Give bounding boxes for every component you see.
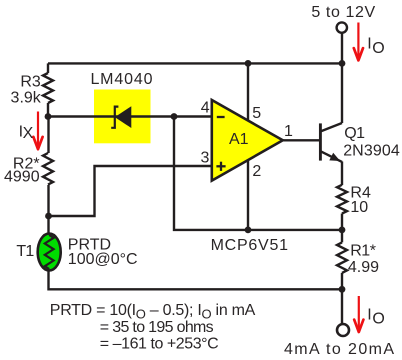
label 5 to 12V (311, 4, 375, 21)
op-amp A1 plus sign (216, 162, 225, 171)
svg-text:X: X (23, 125, 34, 142)
junction dot 8 (342,289.3) (339, 286, 346, 293)
svg-text:10: 10 (350, 199, 368, 216)
svg-text:100@0°C: 100@0°C (68, 251, 138, 268)
junction dot 6 (342,63.4) (339, 60, 346, 67)
current arrow IX (33, 112, 42, 150)
svg-text:= 35 to 195 ohms: = 35 to 195 ohms (100, 319, 214, 336)
svg-text:5 to 12V: 5 to 12V (311, 4, 375, 21)
svg-text:4: 4 (201, 100, 210, 117)
pin 5 (252, 105, 261, 122)
svg-text:T1: T1 (16, 243, 34, 260)
transistor Q1 (320, 123, 342, 162)
wire op-amp supply pins net (247, 63, 249, 230)
wire bottom terminal stub (341, 289, 343, 323)
junction dot 3 (174,116.5) (171, 113, 178, 120)
pin 3 (200, 149, 209, 166)
junction dot 1 (48,116.5) (45, 113, 52, 120)
svg-text:3.9k: 3.9k (11, 90, 42, 107)
svg-text:MCP6V51: MCP6V51 (211, 237, 289, 254)
junction dot 7 (342,229.9) (339, 227, 346, 234)
wire inverting input net (48, 115, 212, 117)
svg-text:Q1: Q1 (344, 125, 365, 142)
formula line 3 (100, 336, 218, 353)
current arrow IO bottom (354, 296, 363, 332)
label IO top (367, 36, 384, 57)
pin 4 (201, 100, 210, 117)
label PRTD 100@0C (68, 236, 138, 268)
label MCP6V51 (211, 237, 289, 254)
svg-text:O: O (372, 311, 384, 328)
terminal output 4-20mA (337, 324, 349, 336)
svg-text:4mA to 20mA: 4mA to 20mA (284, 341, 395, 358)
svg-text:1: 1 (284, 123, 293, 140)
svg-text:LM4040: LM4040 (90, 71, 153, 88)
pin 1 (284, 123, 293, 140)
junction dot 4 (248,63.4) (245, 60, 252, 67)
formula line 2 (100, 319, 214, 336)
label LM4040 (90, 71, 153, 88)
label A1 (229, 131, 249, 148)
label T1 (16, 243, 34, 260)
svg-text:2: 2 (252, 163, 261, 180)
resistor R4 (337, 185, 347, 230)
regulator U2 LM4040 body (94, 90, 151, 144)
op-amp A1 triangle (212, 100, 283, 181)
svg-text:5: 5 (252, 105, 261, 122)
svg-text:I: I (367, 306, 371, 323)
svg-text:= –161 to +253°C: = –161 to +253°C (100, 336, 218, 353)
current arrow IO top (354, 23, 363, 61)
junction dot 2 (48.5,216) (45, 213, 52, 220)
svg-text:4.99: 4.99 (348, 259, 379, 276)
wire noninverting input net (48, 166, 212, 216)
wire top terminal stub (341, 33, 343, 63)
svg-text:3: 3 (200, 149, 209, 166)
svg-text:R1*: R1* (350, 243, 376, 260)
wire top supply rail (48, 62, 342, 64)
label IX (19, 124, 34, 142)
pin 2 (252, 163, 261, 180)
svg-text:A1: A1 (229, 131, 249, 148)
junction dot 5 (248,229.9) (245, 227, 252, 234)
label IO bottom (367, 306, 385, 327)
svg-text:4990: 4990 (4, 168, 40, 185)
terminal 5-12V supply (337, 22, 347, 32)
wire op-amp output to Q1 base (283, 139, 320, 141)
formula line 1 (50, 302, 256, 322)
resistor R2* (43, 153, 53, 185)
label R2* 4990 (4, 156, 40, 186)
wire Q1 collector to rail (341, 63, 343, 123)
zener diode U2 cathode bar (111, 107, 118, 128)
zener diode U2 triangle (115, 106, 132, 128)
resistor R1* (337, 230, 347, 289)
thermistor T1 PRTD (38, 234, 61, 271)
resistor R3 (43, 63, 53, 116)
label 4mA to 20mA (284, 341, 395, 358)
wire R2 bottom stub (47, 185, 49, 216)
label R3 3.9k (11, 73, 42, 106)
wire T1 to bottom rail (49, 216, 343, 289)
svg-text:I: I (367, 36, 371, 53)
wire Q1 emitter to R4 (341, 162, 343, 186)
label R1* 4.99 (348, 243, 379, 276)
op-amp A1 minus sign (217, 116, 225, 118)
label R4 10 (350, 185, 371, 217)
wire feedback net vertical and bottom (174, 117, 342, 230)
svg-text:2N3904: 2N3904 (343, 142, 400, 159)
wire R2 top stub (47, 117, 49, 154)
label Q1 2N3904 (343, 125, 400, 159)
svg-text:O: O (372, 40, 384, 57)
svg-text:R3: R3 (20, 73, 41, 90)
